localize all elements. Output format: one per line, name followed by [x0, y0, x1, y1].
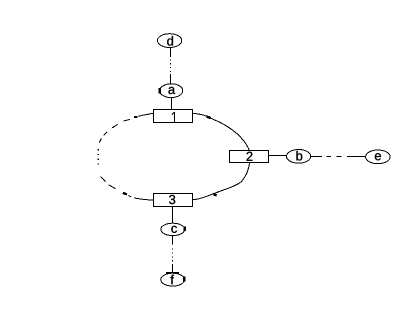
tee arrowhead on node f — [166, 272, 179, 274]
label f — [170, 275, 173, 284]
label 2 — [247, 152, 253, 161]
edge a-1 — [171, 97, 173, 109]
tick on node a — [159, 88, 162, 93]
arrowhead on edge 3-1 (bottom) — [123, 193, 127, 195]
dashes on edge 3-1 upper — [99, 119, 130, 142]
edge 2-3 arc — [192, 162, 249, 200]
edge 3-1 dashed arc: top stub — [138, 113, 153, 116]
edge 2-b — [269, 155, 287, 157]
node f — [161, 273, 185, 286]
node d — [157, 34, 181, 48]
node b — [287, 150, 311, 164]
node 2 — [230, 151, 269, 163]
dashes on edge 3-1 lower — [101, 177, 116, 189]
arrowhead on edge 2-3 — [214, 194, 217, 195]
label 1 (flag + stem to box bottom) — [172, 112, 175, 123]
edge c-f — [172, 236, 174, 273]
tick on node c — [183, 227, 186, 232]
arrowhead on edge 3-1 (top) — [134, 116, 137, 118]
label d — [167, 36, 173, 46]
node e — [366, 150, 391, 164]
edge b-e — [311, 156, 366, 158]
label e — [375, 153, 381, 160]
edge 3-1 dashed arc: bottom stub — [128, 196, 153, 201]
label a — [168, 87, 175, 94]
tick on node f — [183, 276, 185, 281]
node a — [160, 84, 183, 98]
edge 1-2 arc — [193, 113, 250, 150]
label 3 — [169, 195, 175, 204]
node c — [161, 223, 185, 235]
node 1 — [154, 110, 193, 123]
node 3 — [154, 194, 193, 207]
arrowhead on edge 1-2 — [207, 117, 211, 119]
label b — [296, 151, 302, 161]
dots on edge 3-1 left — [97, 149, 99, 164]
label c — [171, 226, 177, 233]
edge d-a — [170, 47, 172, 84]
edge 3-c — [172, 207, 174, 224]
